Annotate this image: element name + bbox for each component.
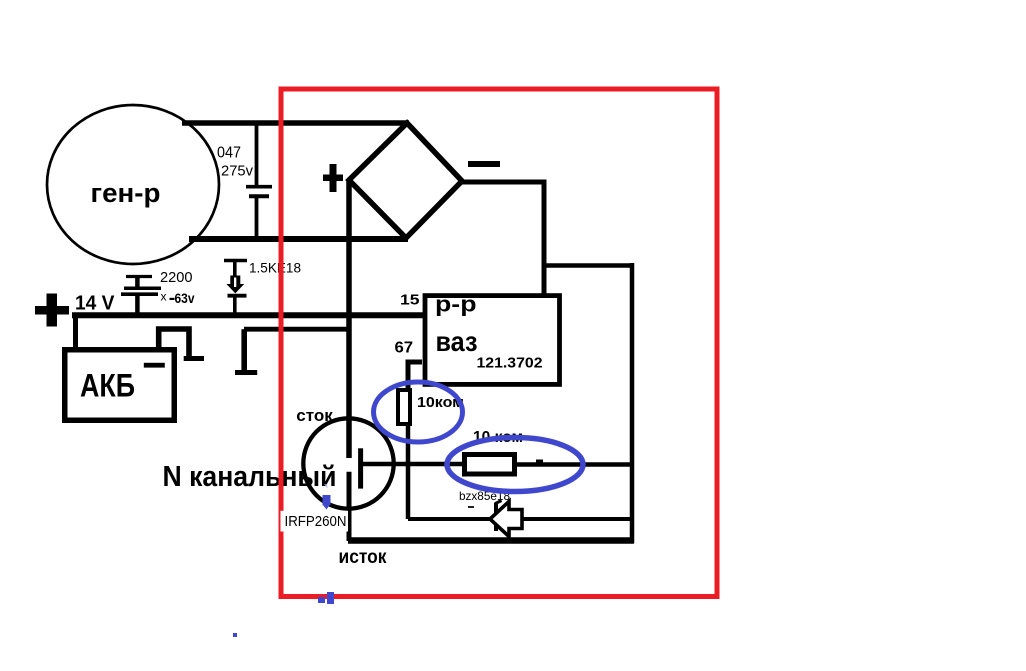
battery minus sign [144, 363, 165, 368]
battery AKB box [65, 350, 175, 421]
resistor R1 10kom vertical [398, 390, 410, 424]
battery negative end bar [184, 356, 204, 361]
MOSFET Q1 circle [303, 418, 393, 508]
bridge plus sign [323, 175, 343, 182]
svg-text:IRFP260N: IRFP260N [285, 514, 347, 530]
MOSFET source wire [347, 472, 352, 541]
wire: R2 right to right rail [517, 462, 634, 467]
regulator box p-p ваз 121.3702 [425, 296, 560, 385]
wire: gate net to zener D2 [408, 517, 491, 521]
svg-text:2200: 2200 [160, 269, 193, 286]
battery negative hook wire [159, 329, 189, 357]
svg-text:14 V: 14 V [75, 293, 115, 315]
svg-text:сток: сток [296, 406, 333, 425]
svg-text:ген-р: ген-р [91, 178, 161, 208]
capacitor C2 top bar [126, 275, 152, 278]
diode bridge [349, 123, 462, 238]
wire: bridge plus down to MOSFET drain [346, 180, 352, 458]
svg-text:АКБ: АКБ [80, 368, 135, 404]
capacitor C1 bottom plate [249, 194, 269, 198]
capacitor C1 top stub [255, 123, 259, 185]
MOSFET gate bar [358, 448, 363, 488]
bridge minus sign [468, 161, 500, 167]
battery plus terminal sign [35, 306, 69, 315]
zener D1 arrow [226, 276, 244, 294]
blue dots on red line [318, 597, 325, 603]
svg-text:67: 67 [395, 340, 414, 357]
blue ellipse around R1 [374, 382, 463, 442]
wire: branch right at y265 [544, 263, 632, 268]
svg-text:63v: 63v [175, 290, 195, 306]
ground branch wire [244, 327, 351, 332]
svg-text:15: 15 [400, 292, 420, 309]
gate wire to R2 [361, 462, 465, 467]
zener D1 bottom wire [233, 296, 237, 315]
label dash [468, 506, 474, 508]
wire: generator top to bridge top [182, 120, 409, 126]
source bottom wire [348, 537, 634, 544]
svg-text:047: 047 [217, 145, 241, 162]
wire: minus down to regulator box top [542, 180, 547, 296]
wire: generator bottom to bridge bottom [189, 236, 408, 242]
ground bar [235, 370, 257, 375]
svg-text:исток: исток [339, 547, 387, 568]
wire: bus down to battery [73, 315, 78, 348]
zener D1 top bar [224, 259, 247, 262]
zener D1 top wire [233, 261, 237, 278]
red border rectangle [281, 89, 717, 597]
svg-text:1.5KE18: 1.5KE18 [249, 261, 301, 276]
wire: right rail down [630, 263, 635, 543]
capacitor C2 top stem [135, 277, 140, 287]
svg-text:ваз: ваз [436, 326, 478, 357]
blue ellipse around R2 [447, 438, 583, 492]
capacitor C2 bottom stem [135, 295, 140, 316]
capacitor C2 plate A [124, 286, 161, 290]
capacitor C1 bottom stub [255, 198, 259, 239]
IRFP260N label box [281, 511, 349, 532]
blue period dot [233, 633, 237, 637]
main 14V bus [72, 312, 425, 318]
svg-text:121.3702: 121.3702 [477, 356, 543, 372]
wire: bridge minus to right [462, 180, 547, 185]
wire: zener D2 to right rail [522, 517, 632, 521]
capacitor C2 plate B [121, 292, 158, 296]
svg-text:x: x [161, 290, 167, 304]
zener D1 cathode bar [228, 294, 247, 298]
blue cursor mark [324, 484, 328, 488]
wire: R1 bottom down [406, 426, 411, 519]
resistor R2 10 kom horizontal [465, 455, 515, 475]
wire nub [536, 460, 543, 464]
zener D2 bzx85c18 cathode bar [494, 503, 498, 532]
svg-text:p-p: p-p [435, 292, 477, 317]
generator G1 [47, 105, 219, 264]
zener D2 arrow body [490, 502, 522, 537]
pin 67 wire [408, 362, 422, 390]
svg-text:275v: 275v [221, 164, 254, 180]
capacitor C1 top plate [246, 185, 272, 189]
